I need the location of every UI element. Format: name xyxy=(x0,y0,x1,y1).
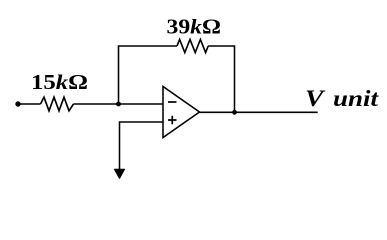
svg-text:V: V xyxy=(305,86,325,111)
svg-text:15kΩ: 15kΩ xyxy=(31,70,88,94)
svg-text:unit: unit xyxy=(333,86,379,111)
svg-text:39kΩ: 39kΩ xyxy=(167,15,222,39)
